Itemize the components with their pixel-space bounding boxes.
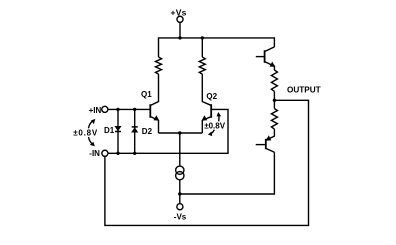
wire +IN line to Q1 base bbox=[108, 108, 150, 110]
arrow right upper (0.8V to Q2 base) bbox=[218, 115, 220, 122]
transistor Q1 base bar bbox=[149, 104, 151, 118]
wire right resistor branch from rail bbox=[201, 38, 203, 57]
transistor Q2 base bar bbox=[210, 104, 212, 118]
transistor Q3 base bar bbox=[264, 50, 266, 63]
svg-text:-Vs: -Vs bbox=[174, 213, 187, 222]
diode D2 (cathode up, anode down) bbox=[132, 128, 138, 132]
svg-text:OUTPUT: OUTPUT bbox=[287, 86, 321, 95]
transistor Q2 emitter bbox=[202, 117, 210, 133]
wire Q1 collector lead bbox=[151, 74, 159, 105]
arrow left lower (0.8V to -IN) bbox=[89, 137, 93, 144]
wire top rail bbox=[159, 38, 275, 57]
terminal +IN bbox=[102, 106, 108, 112]
node dot -IN/D1 bbox=[116, 152, 119, 155]
wire Q2 collector lead bbox=[202, 74, 210, 105]
current source I1 circle upper bbox=[176, 166, 184, 174]
transistor Q3 collector bbox=[265, 47, 274, 51]
resistor R3 (upper output) bbox=[271, 70, 277, 91]
wire OUTPUT feedback loop bbox=[105, 100, 309, 225]
wire emitter rail to current source bbox=[179, 133, 181, 166]
transistor Q4 collector bbox=[266, 149, 274, 153]
svg-text:±0.8V: ±0.8V bbox=[73, 128, 98, 137]
svg-text:+Vs: +Vs bbox=[170, 8, 186, 18]
diode D1 lead bbox=[117, 109, 119, 153]
node dot -IN/D2 bbox=[133, 152, 136, 155]
transistor Q4 emitter arrow (PNP) bbox=[266, 135, 272, 140]
node dot rail/R2 bbox=[201, 36, 204, 39]
current source I1 circle lower bbox=[176, 172, 184, 180]
arrow right lower (0.8V to emitter) bbox=[211, 130, 215, 134]
terminal -Vs bbox=[177, 204, 183, 210]
node dot OUTPUT bbox=[273, 99, 276, 102]
transistor Q3 base stub bbox=[256, 56, 264, 58]
svg-text:D1: D1 bbox=[104, 126, 115, 135]
diode D2 lead bbox=[134, 109, 136, 153]
transistor Q3 emitter arrow bbox=[270, 62, 276, 67]
resistor R2 (Q2 collector load) bbox=[199, 57, 205, 74]
svg-text:-IN: -IN bbox=[89, 149, 100, 158]
svg-text:Q2: Q2 bbox=[206, 92, 217, 101]
node dot rail/+Vs bbox=[178, 36, 181, 39]
svg-text:+IN: +IN bbox=[89, 106, 102, 115]
transistor Q1 emitter bbox=[151, 117, 159, 133]
wire -IN line to Q2 base bbox=[108, 109, 228, 153]
wire R4 to Q4 emitter bbox=[266, 129, 274, 140]
wire +Vs drop to top rail bbox=[179, 22, 181, 38]
svg-text:Q1: Q1 bbox=[141, 90, 152, 99]
diode D1 (anode up, cathode down) bbox=[115, 126, 121, 130]
svg-text:D2: D2 bbox=[142, 127, 153, 136]
terminal -IN bbox=[102, 150, 108, 156]
arrow left upper (0.8V to +IN) bbox=[89, 121, 94, 129]
transistor Q1 emitter arrow bbox=[154, 115, 160, 120]
wire -Vs node to PNP collector bbox=[180, 152, 275, 194]
node dot +IN/D2 bbox=[133, 108, 136, 111]
svg-text:±0.8V: ±0.8V bbox=[204, 122, 226, 131]
transistor Q3 emitter bbox=[265, 62, 274, 70]
wire R3 to output node bbox=[273, 91, 275, 108]
wire current source to -Vs bbox=[179, 180, 181, 204]
resistor R1 (Q1 collector load) bbox=[156, 57, 162, 74]
terminal +Vs bbox=[177, 16, 183, 22]
transistor Q4 base bar bbox=[265, 139, 267, 149]
wire emitter rail bbox=[159, 132, 203, 134]
node dot +IN/D1 bbox=[116, 108, 119, 111]
diode D1 cathode bar bbox=[115, 131, 121, 133]
resistor R4 (lower output) bbox=[271, 109, 277, 130]
diode D2 cathode bar bbox=[132, 126, 138, 128]
node dot -Vs junction bbox=[178, 192, 181, 195]
transistor Q4 base stub bbox=[256, 144, 266, 146]
transistor Q2 emitter arrow bbox=[202, 115, 208, 120]
node dot emitter rail bbox=[178, 131, 181, 134]
